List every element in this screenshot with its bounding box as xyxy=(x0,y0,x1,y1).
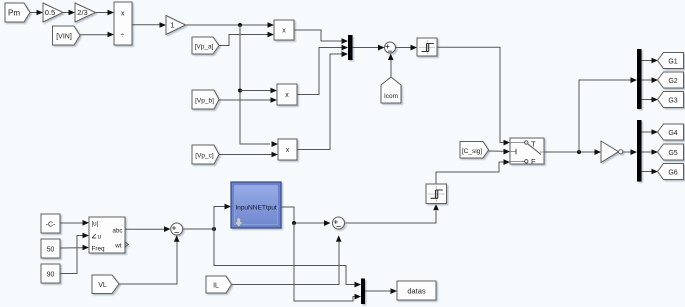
wire [VIN] to divide xyxy=(80,32,114,38)
wire IL to sum S3 xyxy=(232,235,342,284)
wire Pm to gain 0.5 xyxy=(30,10,43,16)
node A junction on main wire xyxy=(238,23,242,27)
demux 1 xyxy=(637,49,642,109)
node C junction after switch xyxy=(577,150,581,154)
svg-text:x: x xyxy=(286,147,290,154)
wire x2 to mux xyxy=(297,45,348,95)
wire node B to x2 xyxy=(240,88,277,94)
svg-text:[C_sig]: [C_sig] xyxy=(462,148,482,155)
from tag [Vp_c] xyxy=(192,145,219,164)
svg-text:F: F xyxy=(531,157,536,166)
svg-text:90: 90 xyxy=(47,272,55,279)
svg-text:1: 1 xyxy=(170,21,174,30)
wire 90 to source block xyxy=(60,233,89,274)
wire [C_sig] to switch control xyxy=(489,149,511,155)
wire vertical branch from node A down xyxy=(240,25,270,144)
wire demux 2 out 2 xyxy=(642,149,659,155)
demux 2 xyxy=(637,120,642,182)
constant 50 xyxy=(41,239,60,258)
product x1 xyxy=(274,20,294,40)
from tag VL xyxy=(92,275,119,294)
product x3 xyxy=(278,139,297,160)
svg-text:[VIN]: [VIN] xyxy=(56,34,72,41)
svg-text:-C-: -C- xyxy=(46,222,56,229)
svg-text:÷: ÷ xyxy=(121,33,125,40)
gain 2/3 xyxy=(75,3,96,22)
wire demux 1 out 2 xyxy=(642,77,659,83)
wire relay 2 to switch F input xyxy=(436,159,510,184)
wire [Vp_a] to x1 xyxy=(219,32,274,46)
wire gain 2/3 to divide xyxy=(96,10,115,16)
wire VL to sum S2 xyxy=(119,235,180,284)
goto tag G6 xyxy=(658,164,684,180)
to-workspace block datas xyxy=(397,281,436,300)
goto tag G2 xyxy=(658,72,684,88)
wire [Vp_b] to x2 xyxy=(219,97,277,103)
sum S3 xyxy=(333,217,345,229)
node B junction feeding x2 xyxy=(238,89,242,93)
NOT gate xyxy=(601,141,623,163)
svg-text:x: x xyxy=(121,11,125,18)
neural network block NNET xyxy=(231,182,281,228)
svg-text:x: x xyxy=(285,92,289,99)
svg-text:[Vp_c]: [Vp_c] xyxy=(195,153,214,160)
wire Icom to sum S1 xyxy=(388,54,394,78)
svg-text:G4: G4 xyxy=(668,130,677,137)
wire node E down to mux 2 xyxy=(294,223,361,301)
wire mux to sum xyxy=(353,45,385,51)
wire node C up to demux 1 xyxy=(579,77,637,152)
wire abc to sum S2 xyxy=(125,226,171,232)
svg-text:50: 50 xyxy=(47,247,55,254)
divide block xyxy=(114,2,132,45)
product x2 xyxy=(277,84,297,105)
svg-text:[Vp_b]: [Vp_b] xyxy=(195,98,214,105)
svg-text:G3: G3 xyxy=(668,98,677,105)
goto tag G1 xyxy=(658,53,684,69)
wire sum S1 to relay 1 xyxy=(396,45,418,51)
svg-text:Pm: Pm xyxy=(8,9,20,18)
relay 1 xyxy=(417,38,437,56)
from tag [Vp_a] xyxy=(192,37,219,54)
wire x3 to mux xyxy=(297,51,348,149)
three-phase source block xyxy=(89,217,128,253)
node D junction after sum S2 xyxy=(212,227,216,231)
switch block xyxy=(510,138,544,166)
wire node D down to mux 2 xyxy=(214,229,361,288)
wire NOT gate to demux 2 xyxy=(623,149,637,155)
from tag [Vp_b] xyxy=(192,90,219,109)
wire divide to gain 1 xyxy=(132,22,166,28)
wire node D up into NN block xyxy=(214,204,231,229)
svg-text:|u|: |u| xyxy=(92,221,99,228)
wire relay 1 to switch T input xyxy=(437,47,510,145)
svg-text:datas: datas xyxy=(407,287,426,296)
wire demux 1 out 1 xyxy=(642,58,659,64)
svg-text:VL: VL xyxy=(98,282,107,289)
wire switch output to NOT gate xyxy=(544,149,601,155)
wire x1 to mux xyxy=(294,30,348,44)
constant -C- xyxy=(41,214,60,233)
svg-text:IL: IL xyxy=(213,283,219,290)
svg-text:G5: G5 xyxy=(668,150,677,157)
svg-text:x: x xyxy=(282,28,286,35)
svg-text:abc: abc xyxy=(112,227,122,234)
wire demux 2 out 3 xyxy=(642,169,659,175)
svg-text:0.5: 0.5 xyxy=(45,8,55,17)
wire gain 1 to product x1 xyxy=(186,22,275,28)
svg-text:G2: G2 xyxy=(668,78,677,85)
goto tag G3 xyxy=(658,92,684,108)
svg-text:Icom: Icom xyxy=(384,93,398,100)
goto tag G4 xyxy=(658,124,684,140)
svg-text:2/3: 2/3 xyxy=(77,8,87,17)
from tag Pm xyxy=(5,3,30,22)
wire [Vp_c] to x3 xyxy=(219,152,278,158)
wire -C- to source block xyxy=(60,220,89,226)
relay 2 xyxy=(426,184,447,204)
svg-text:G1: G1 xyxy=(668,59,677,66)
svg-text:u: u xyxy=(98,233,102,240)
goto tag G5 xyxy=(658,144,684,160)
sum S2 xyxy=(171,223,183,235)
from tag Icom xyxy=(381,77,401,103)
gain 0.5 xyxy=(43,3,63,22)
mux Mux1 xyxy=(348,35,353,60)
wire demux 1 out 3 xyxy=(642,97,659,103)
constant 90 xyxy=(41,264,60,283)
gain 1 xyxy=(166,16,186,35)
wire mux 2 to datas scope xyxy=(365,288,397,294)
svg-text:wt: wt xyxy=(114,242,122,249)
svg-text:G6: G6 xyxy=(668,170,677,177)
node E junction on NN output xyxy=(292,221,296,225)
svg-text:Freq: Freq xyxy=(92,246,105,253)
wire 50 to source block xyxy=(60,245,89,251)
svg-text:[Vp_a]: [Vp_a] xyxy=(195,44,214,51)
wire sum S2 output xyxy=(183,228,214,230)
from tag IL xyxy=(206,276,232,293)
wire NN block output xyxy=(281,207,331,226)
mux Mux2 xyxy=(361,279,365,305)
wire demux 2 out 1 xyxy=(642,129,659,135)
svg-text:InpuNNETtput: InpuNNETtput xyxy=(235,205,276,212)
sum S1 top xyxy=(385,42,396,53)
from tag [VIN] xyxy=(53,26,81,45)
second relay input wire from sum S3 xyxy=(344,204,439,223)
from tag [C_sig] xyxy=(460,142,489,159)
wire gain 0.5 to gain 2/3 xyxy=(63,10,75,16)
